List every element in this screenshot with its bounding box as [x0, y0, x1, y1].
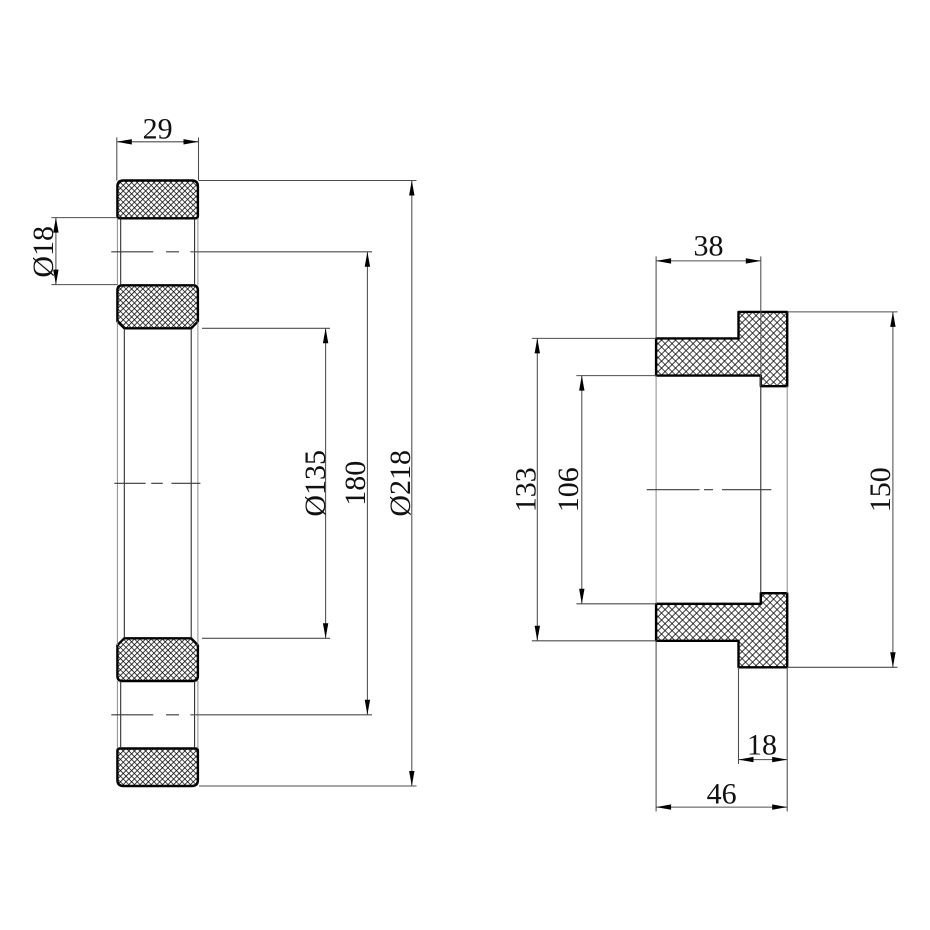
bushing section: lower half (hatched): [656, 593, 787, 667]
flange face silhouette lines through lower bolt hole: [117, 681, 197, 749]
lower bolt hole chamfer edge lines: [121, 681, 195, 749]
dimension 106 (bore diameter): [552, 376, 656, 604]
svg-text:46: 46: [707, 778, 737, 811]
upper bolt hole centerline (dash-dot): [111, 251, 179, 253]
bushing axis centerline (dash-dot): [647, 489, 772, 491]
dimension Ø18 (bolt hole diameter): [27, 218, 118, 285]
dimension 46 (bushing overall length): [656, 641, 787, 812]
svg-text:38: 38: [694, 230, 724, 263]
dimension 29 (flange thickness): [117, 112, 199, 180]
bushing socket step edge line: [760, 386, 762, 593]
svg-text:Ø18: Ø18: [27, 226, 60, 278]
svg-text:180: 180: [339, 461, 372, 506]
dimension 150 (collar outer diameter): [787, 312, 897, 667]
dimension Ø218 (flange outer diameter): [199, 181, 417, 787]
lower bolt hole centerline (dash-dot): [111, 714, 179, 716]
flange section: lower rim (hatched): [117, 749, 197, 787]
dimension 180 (bolt circle diameter): [190, 252, 372, 715]
svg-text:133: 133: [509, 467, 542, 512]
flange face silhouette lines through bore: [117, 321, 197, 645]
svg-text:106: 106: [552, 467, 585, 512]
svg-text:18: 18: [747, 729, 777, 762]
flange section: between bore and lower bolt hole (hatched): [117, 638, 197, 681]
dimension 18 (collar width): [739, 667, 788, 811]
dimension 133 (pipe outer diameter): [509, 338, 656, 640]
flange face silhouette lines through upper bolt hole: [117, 218, 197, 285]
flange section: between upper bolt hole and bore (hatched): [117, 285, 197, 328]
upper bolt hole chamfer edge lines: [121, 218, 195, 285]
flange section: upper rim (hatched): [117, 181, 197, 219]
flange main axis centerline (dash-dot): [114, 482, 200, 484]
svg-text:Ø135: Ø135: [299, 450, 332, 517]
bushing section: upper half (hatched): [656, 312, 787, 386]
dimension Ø135 (bore diameter): [202, 328, 332, 638]
svg-text:29: 29: [143, 112, 173, 145]
bushing right face silhouette line through bore: [786, 386, 788, 593]
bore chamfer edge lines: [124, 328, 191, 638]
svg-text:150: 150: [864, 467, 897, 512]
svg-text:Ø218: Ø218: [384, 450, 417, 517]
dimension 38 (socket depth): [656, 230, 761, 387]
bushing left face silhouette line through bore: [655, 376, 657, 604]
